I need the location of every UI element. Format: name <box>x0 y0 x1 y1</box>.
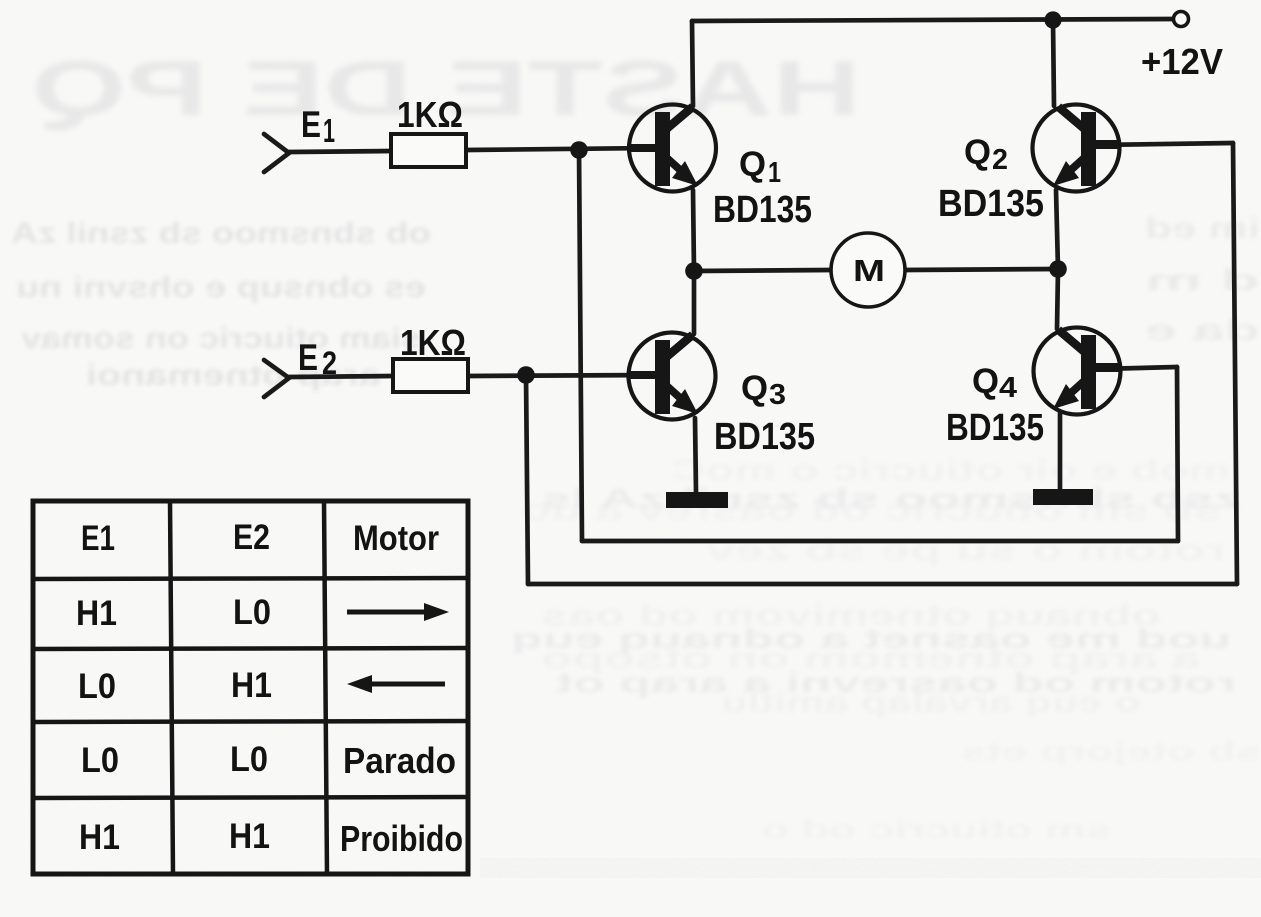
svg-text:H1: H1 <box>79 818 120 857</box>
svg-text:2: 2 <box>322 345 337 381</box>
svg-text:M: M <box>853 253 885 288</box>
svg-text:Motor: Motor <box>353 519 439 558</box>
svg-text:rotom od oasrevni a arap ot: rotom od oasrevni a arap ot <box>556 667 1236 698</box>
svg-text:da e: da e <box>1145 314 1260 347</box>
svg-text:1: 1 <box>323 112 335 149</box>
svg-text:+12V: +12V <box>1141 41 1223 82</box>
svg-text:Q: Q <box>739 145 766 184</box>
svg-text:E: E <box>301 104 321 145</box>
svg-text:Q: Q <box>964 133 991 172</box>
svg-text:ob sbnsmoo sb zsnil zA: ob sbnsmoo sb zsnil zA <box>11 217 431 250</box>
svg-text:E1: E1 <box>81 519 115 558</box>
svg-text:1KΩ: 1KΩ <box>400 322 466 363</box>
svg-text:d m: d m <box>1145 264 1260 297</box>
svg-text:H1: H1 <box>76 594 117 633</box>
svg-text:es obnsup e ohsvni nu: es obnsup e ohsvni nu <box>16 271 426 304</box>
svg-text:BD135: BD135 <box>946 407 1044 449</box>
svg-text:3: 3 <box>769 379 786 411</box>
svg-text:Proibido: Proibido <box>340 818 463 859</box>
svg-text:L0: L0 <box>81 741 119 780</box>
svg-text:Q: Q <box>741 369 768 408</box>
svg-text:1KΩ: 1KΩ <box>397 94 463 135</box>
svg-text:zsb sbnsmoo sb zsnil zA ls: zsb sbnsmoo sb zsnil zA ls <box>541 483 1241 514</box>
svg-text:sb otejorp ets: sb otejorp ets <box>961 736 1261 766</box>
svg-text:BD135: BD135 <box>714 416 815 458</box>
svg-text:BD135: BD135 <box>938 183 1044 225</box>
svg-text:sm otiucric od o: sm otiucric od o <box>761 814 1111 844</box>
svg-text:BD135: BD135 <box>713 189 812 231</box>
svg-text:2: 2 <box>992 144 1008 176</box>
svg-text:E: E <box>298 337 318 378</box>
svg-text:Q: Q <box>972 362 999 401</box>
svg-text:E2: E2 <box>233 518 270 557</box>
svg-text:1: 1 <box>768 157 781 189</box>
svg-text:siam otiucric on somav: siam otiucric on somav <box>21 322 421 355</box>
svg-text:Parado: Parado <box>343 740 456 781</box>
svg-text:H1: H1 <box>231 666 272 705</box>
svg-text:im ed: im ed <box>1145 212 1260 245</box>
svg-text:4: 4 <box>999 372 1017 404</box>
svg-text:L0: L0 <box>233 593 271 632</box>
svg-text:H1: H1 <box>229 817 270 856</box>
svg-text:L0: L0 <box>78 667 116 706</box>
svg-text:uod me oasnet a odnauq euq: uod me oasnet a odnauq euq <box>511 623 1231 654</box>
svg-text:L0: L0 <box>230 740 268 779</box>
